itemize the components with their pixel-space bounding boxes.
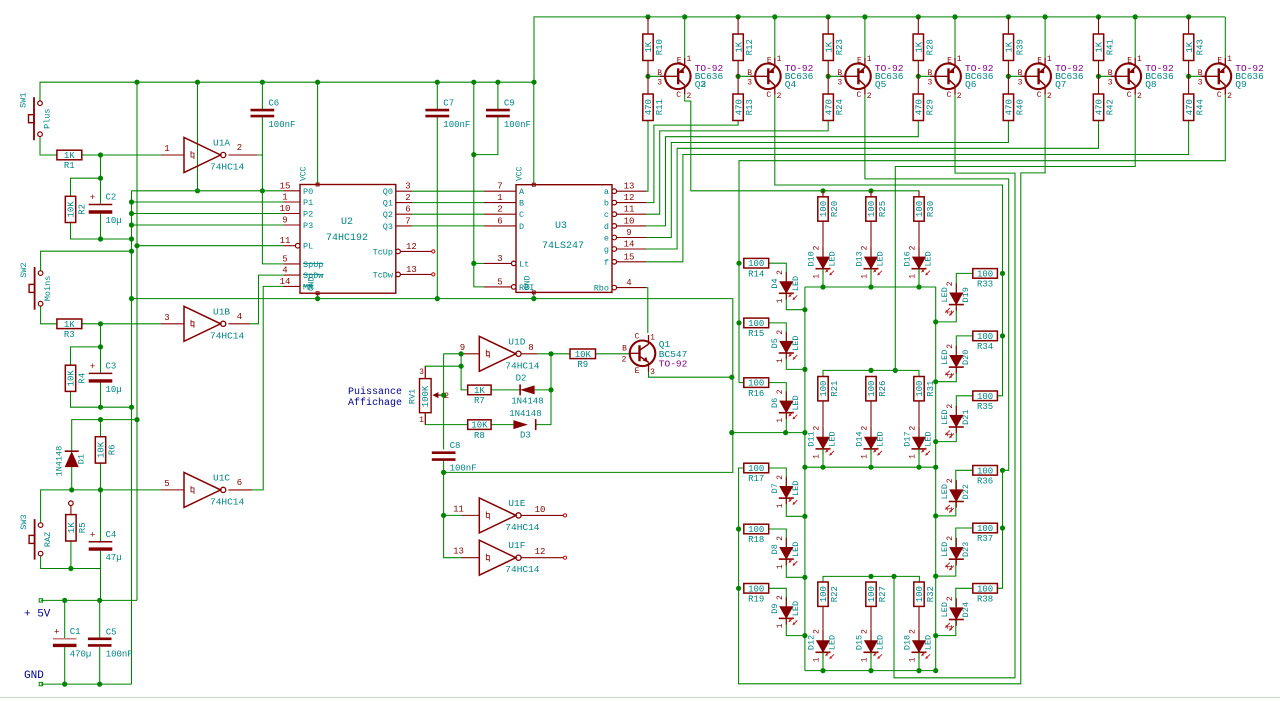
LED D15	[855, 629, 886, 662]
wire segment c rail	[997, 470, 1002, 588]
svg-text:U1F: U1F	[508, 540, 525, 551]
svg-text:2: 2	[861, 426, 870, 431]
svg-text:U1A: U1A	[213, 138, 230, 149]
svg-text:2: 2	[237, 143, 242, 153]
wire R2 C2 top rail	[71, 178, 101, 196]
svg-text:R8: R8	[474, 431, 485, 441]
svg-text:LED: LED	[940, 350, 950, 365]
svg-text:Q7: Q7	[1055, 79, 1066, 90]
svg-text:1: 1	[776, 503, 785, 508]
U1E output stub	[522, 514, 564, 516]
wire base Q5	[828, 75, 845, 77]
wire net a	[646, 121, 648, 192]
svg-text:100nF: 100nF	[443, 120, 470, 130]
wire net g	[646, 121, 1099, 250]
svg-text:100: 100	[819, 201, 829, 217]
wire C4 top lead	[100, 490, 102, 541]
svg-text:D17: D17	[903, 431, 913, 446]
svg-text:2: 2	[622, 355, 627, 364]
wire GND vertical A	[131, 191, 133, 684]
svg-text:100: 100	[915, 201, 925, 217]
svg-text:100: 100	[819, 586, 829, 602]
inverter U1E	[479, 498, 540, 533]
wire D13 anode	[870, 245, 872, 257]
svg-text:2: 2	[497, 205, 502, 215]
svg-text:74HC192: 74HC192	[326, 233, 368, 244]
LED D7	[770, 475, 801, 508]
wire base Q6	[918, 75, 935, 77]
wire VCC vertical B	[136, 82, 138, 600]
svg-text:74HC14: 74HC14	[505, 564, 540, 575]
capacitor C4	[89, 530, 122, 563]
svg-text:B: B	[1198, 69, 1203, 78]
wire cathode gnd link	[732, 432, 805, 434]
wire C1 C5 bottoms	[64, 647, 66, 684]
wire C9 top	[497, 82, 499, 110]
svg-text:11: 11	[624, 205, 635, 215]
wire stub	[918, 191, 920, 197]
svg-text:D7: D7	[770, 483, 780, 493]
svg-text:D11: D11	[807, 431, 817, 446]
svg-text:10: 10	[280, 204, 291, 214]
svg-text:9: 9	[626, 228, 631, 238]
capacitor C5	[88, 627, 133, 659]
svg-text:2: 2	[867, 92, 872, 101]
wire D12 to rail	[822, 652, 824, 670]
svg-text:Q5: Q5	[875, 79, 887, 90]
svg-text:1K: 1K	[64, 320, 75, 330]
wire C3 leads	[100, 347, 102, 373]
svg-text:1: 1	[776, 358, 785, 363]
wire emitter riser Q6	[954, 17, 956, 58]
svg-text:LED: LED	[940, 542, 950, 557]
resistor R6	[95, 437, 117, 463]
svg-text:1K: 1K	[824, 41, 834, 52]
svg-text:LED: LED	[828, 431, 838, 446]
LED D9	[770, 595, 801, 628]
svg-text:E: E	[947, 57, 952, 66]
svg-text:1: 1	[1047, 55, 1052, 64]
svg-text:2: 2	[946, 281, 955, 286]
wire Q7 collector to segment e feed	[739, 95, 1046, 684]
wire C6 top	[261, 82, 263, 110]
capacitor C6	[251, 99, 296, 131]
svg-text:3: 3	[837, 78, 842, 87]
svg-text:74LS247: 74LS247	[542, 241, 584, 252]
capacitor C9	[486, 99, 531, 131]
svg-text:R32: R32	[926, 586, 936, 602]
svg-text:Q0: Q0	[383, 187, 393, 197]
resistor R26	[866, 377, 888, 426]
svg-text:13: 13	[406, 265, 417, 275]
wire mid rail	[805, 466, 936, 468]
resistor R7	[468, 385, 491, 406]
svg-text:3: 3	[419, 368, 424, 377]
svg-text:R39: R39	[1015, 39, 1025, 55]
wire R6 bottom	[100, 463, 102, 490]
wire U3 VCC riser	[533, 82, 535, 185]
svg-text:R20: R20	[830, 201, 840, 217]
svg-text:74HC14: 74HC14	[505, 360, 540, 371]
svg-text:100: 100	[977, 269, 993, 279]
svg-text:1: 1	[1137, 55, 1142, 64]
svg-text:C4: C4	[106, 530, 117, 540]
svg-text:LED: LED	[828, 635, 838, 650]
wire D17 anode	[918, 425, 920, 437]
wire P1	[132, 201, 284, 203]
svg-text:3: 3	[164, 313, 169, 323]
svg-text:1: 1	[909, 454, 918, 459]
svg-text:470: 470	[1095, 99, 1105, 115]
svg-text:D23: D23	[961, 542, 971, 557]
svg-text:E: E	[767, 57, 772, 66]
svg-text:10: 10	[535, 505, 546, 515]
svg-text:2: 2	[776, 595, 785, 600]
wire U1F input stub	[462, 557, 479, 559]
svg-text:RBI: RBI	[519, 283, 534, 293]
wire C2 leads	[100, 178, 102, 204]
svg-text:D21: D21	[961, 410, 971, 425]
svg-text:74HC14: 74HC14	[505, 522, 540, 533]
svg-text:4: 4	[237, 312, 242, 322]
svg-text:D24: D24	[961, 602, 971, 617]
wire U1E input	[444, 514, 462, 516]
wire stub	[870, 191, 872, 197]
transistor Q5	[837, 55, 903, 101]
svg-text:R11: R11	[655, 99, 665, 115]
svg-text:U3: U3	[555, 221, 567, 232]
svg-text:LED: LED	[940, 287, 950, 302]
wire U1D input	[444, 353, 462, 355]
svg-text:2: 2	[813, 629, 822, 634]
svg-text:+ 5V: + 5V	[24, 609, 51, 621]
wire R15 to D5	[769, 323, 787, 342]
wire emitter riser Q5	[864, 17, 866, 58]
svg-text:2: 2	[1227, 92, 1232, 101]
svg-text:3: 3	[747, 78, 752, 87]
svg-text:C: C	[519, 210, 524, 220]
svg-text:100: 100	[867, 201, 877, 217]
svg-text:E: E	[1037, 57, 1042, 66]
wire R5 top stub	[70, 505, 72, 514]
resistor R12	[733, 17, 755, 76]
resistor R34	[973, 331, 998, 352]
svg-text:12: 12	[406, 242, 417, 252]
wire SW2 bottom to R3	[41, 306, 57, 324]
svg-text:E: E	[1217, 57, 1222, 66]
svg-text:10µ: 10µ	[106, 385, 122, 395]
svg-text:100: 100	[748, 379, 764, 389]
svg-text:R30: R30	[926, 201, 936, 217]
wire U1C out riser to MR	[228, 489, 252, 491]
svg-text:R25: R25	[878, 201, 888, 217]
svg-text:1: 1	[776, 298, 785, 303]
svg-text:+: +	[90, 362, 95, 372]
svg-text:13: 13	[453, 547, 464, 557]
wire net c	[646, 121, 828, 215]
wire VCC rail2 D1 R6	[72, 420, 137, 452]
svg-text:74HC14: 74HC14	[210, 496, 245, 507]
svg-text:100: 100	[977, 584, 993, 594]
svg-text:2: 2	[946, 596, 955, 601]
LED D16	[903, 245, 934, 278]
svg-text:6: 6	[405, 205, 410, 215]
svg-text:U1E: U1E	[508, 498, 525, 509]
svg-text:3: 3	[927, 78, 932, 87]
resistor R42	[1093, 76, 1115, 120]
diode D2	[511, 373, 543, 406]
svg-text:C: C	[635, 333, 640, 342]
svg-text:100: 100	[748, 464, 764, 474]
svg-text:2: 2	[686, 92, 691, 101]
svg-text:D16: D16	[903, 251, 913, 266]
svg-text:470: 470	[824, 99, 834, 115]
svg-text:1N4148: 1N4148	[509, 409, 541, 419]
wire cathode right frame lower	[805, 467, 936, 670]
LED D23	[940, 536, 971, 570]
svg-text:LED: LED	[940, 602, 950, 617]
svg-text:7: 7	[497, 182, 502, 192]
svg-text:R37: R37	[977, 534, 993, 544]
resistor R32	[914, 582, 936, 629]
wire R18 to D8	[769, 529, 787, 548]
power pin +5V	[39, 599, 42, 602]
wire D17 to rail	[918, 449, 920, 467]
wire R7 to D2	[491, 389, 520, 391]
wire D14 anode	[870, 425, 872, 437]
wire Lt tap	[474, 262, 484, 264]
svg-text:2: 2	[909, 245, 918, 250]
svg-text:E: E	[677, 57, 682, 66]
wire D16 to rail	[918, 269, 920, 287]
svg-text:C8: C8	[450, 441, 461, 451]
svg-text:TcDw: TcDw	[373, 270, 394, 280]
wire R16 to D6	[769, 383, 787, 402]
svg-text:47µ: 47µ	[106, 553, 122, 563]
svg-text:P2: P2	[303, 210, 313, 220]
svg-text:C2: C2	[106, 193, 117, 203]
svg-text:1: 1	[861, 274, 870, 279]
wire D1 bottom	[71, 467, 73, 490]
svg-text:c: c	[604, 210, 609, 220]
transistor Q7	[1018, 55, 1084, 101]
wire R5 bottom	[70, 541, 72, 569]
svg-text:1: 1	[946, 310, 955, 315]
wire C1 C5 tops	[64, 600, 66, 638]
wire emitter riser Q3	[684, 17, 686, 58]
svg-text:LED: LED	[791, 601, 801, 616]
svg-text:100: 100	[748, 259, 764, 269]
svg-text:B: B	[747, 69, 752, 78]
svg-text:R4: R4	[78, 373, 88, 384]
svg-text:D14: D14	[855, 431, 865, 446]
svg-text:1K: 1K	[644, 41, 654, 52]
svg-text:470: 470	[915, 99, 925, 115]
svg-text:1: 1	[282, 193, 287, 203]
svg-text:1N4148: 1N4148	[511, 396, 543, 406]
svg-text:LED: LED	[876, 635, 886, 650]
svg-text:R22: R22	[830, 586, 840, 602]
svg-text:R27: R27	[878, 586, 888, 602]
svg-text:2: 2	[701, 79, 707, 90]
svg-text:VCC: VCC	[300, 166, 309, 181]
resistor R8	[468, 420, 491, 441]
transistor Q4	[747, 55, 813, 101]
svg-text:R5: R5	[78, 522, 88, 533]
wire g rail	[823, 370, 919, 376]
svg-text:3: 3	[405, 182, 410, 192]
svg-text:1: 1	[419, 416, 424, 425]
wire C9 bottom link	[474, 117, 498, 155]
svg-text:SW2: SW2	[19, 262, 29, 277]
LED D18	[903, 629, 934, 662]
svg-text:D15: D15	[855, 635, 865, 650]
wire base Q4	[738, 75, 755, 77]
svg-text:6: 6	[497, 216, 502, 226]
svg-text:2: 2	[946, 344, 955, 349]
transistor Q8	[1108, 55, 1174, 101]
svg-text:8: 8	[528, 343, 533, 353]
svg-text:B: B	[622, 344, 627, 353]
wire R14 to D4	[769, 263, 787, 281]
wire net f	[646, 121, 1189, 262]
svg-text:D9: D9	[770, 603, 780, 613]
svg-text:2: 2	[444, 391, 449, 401]
inverter U1F	[479, 540, 540, 575]
wire D5 cathode	[786, 353, 805, 369]
wire RV1 bottom to R8	[425, 413, 467, 425]
svg-text:g: g	[604, 245, 609, 255]
svg-text:9: 9	[460, 343, 465, 353]
svg-text:2: 2	[957, 92, 962, 101]
wire out node vertical	[536, 354, 551, 425]
svg-text:100: 100	[915, 381, 925, 397]
resistor R22	[818, 582, 840, 629]
svg-text:C3: C3	[106, 361, 117, 371]
resistor R3	[57, 319, 82, 340]
svg-text:100nF: 100nF	[450, 464, 477, 474]
svg-text:R35: R35	[977, 402, 993, 412]
wire R35 to D21	[956, 396, 973, 415]
svg-text:LED: LED	[876, 251, 886, 266]
svg-text:LED: LED	[791, 336, 801, 351]
svg-text:9: 9	[282, 216, 287, 226]
svg-text:470: 470	[644, 99, 654, 115]
svg-text:SW3: SW3	[19, 514, 29, 529]
svg-text:14: 14	[624, 240, 635, 250]
svg-text:100: 100	[977, 466, 993, 476]
svg-text:TcUp: TcUp	[373, 247, 393, 257]
svg-text:P3: P3	[303, 221, 313, 231]
svg-text:D4: D4	[770, 278, 780, 288]
resistor R5	[66, 515, 88, 541]
svg-text:3: 3	[1198, 78, 1203, 87]
wire D13 to rail	[870, 269, 872, 287]
svg-text:f: f	[604, 258, 609, 268]
svg-text:1K: 1K	[915, 41, 925, 52]
LED D11	[807, 426, 838, 459]
svg-text:R19: R19	[748, 595, 764, 605]
svg-text:LED: LED	[924, 431, 934, 446]
svg-text:3: 3	[650, 368, 655, 377]
svg-text:B: B	[1108, 69, 1113, 78]
svg-text:RV1: RV1	[408, 389, 418, 404]
wire D6 cathode	[785, 413, 787, 433]
wire Q3-D	[412, 225, 484, 227]
svg-text:C6: C6	[268, 99, 279, 109]
svg-text:VCC: VCC	[516, 166, 525, 181]
svg-text:1K: 1K	[1095, 41, 1105, 52]
svg-text:U1C: U1C	[213, 472, 230, 483]
svg-text:C1: C1	[70, 627, 81, 637]
svg-text:1: 1	[776, 418, 785, 423]
wire R8 to D3	[491, 424, 513, 426]
svg-text:C: C	[1127, 91, 1132, 100]
svg-text:R15: R15	[748, 329, 764, 339]
svg-text:2: 2	[861, 629, 870, 634]
svg-text:Q6: Q6	[965, 79, 977, 90]
svg-text:2: 2	[777, 92, 782, 101]
capacitor C1	[53, 627, 91, 660]
resistor R37	[973, 523, 998, 544]
resistor R25	[866, 197, 888, 245]
svg-text:5: 5	[497, 277, 502, 287]
wire stub	[822, 191, 824, 197]
resistor R21	[818, 377, 840, 426]
wire VCC drop to SW1 R1	[40, 137, 57, 156]
wire U2 VCC riser	[317, 82, 319, 184]
svg-text:100: 100	[748, 319, 764, 329]
wire Q9 collector to segment f feed	[739, 95, 1225, 383]
wire R6 top lead	[100, 420, 102, 437]
svg-text:LED: LED	[924, 635, 934, 650]
svg-text:Q9: Q9	[1235, 79, 1247, 90]
wire Q0-A	[412, 190, 484, 192]
svg-text:R2: R2	[78, 204, 88, 215]
svg-text:Puissance: Puissance	[348, 386, 402, 398]
svg-text:100: 100	[819, 381, 829, 397]
svg-text:R28: R28	[925, 39, 935, 55]
wire Q4 collector to segment b rail	[775, 95, 1003, 396]
svg-text:1: 1	[813, 454, 822, 459]
svg-text:2: 2	[1137, 92, 1142, 101]
wire +5V line	[41, 599, 137, 601]
wire d rail	[823, 576, 919, 582]
svg-text:E: E	[1127, 57, 1132, 66]
svg-text:1: 1	[867, 55, 872, 64]
svg-text:7: 7	[405, 216, 410, 226]
wire Lt RBI riser	[474, 82, 484, 287]
svg-text:+: +	[90, 530, 95, 540]
wire base Q8	[1099, 75, 1116, 77]
svg-text:2: 2	[946, 478, 955, 483]
svg-text:100: 100	[977, 392, 993, 402]
svg-text:B: B	[837, 69, 842, 78]
wire emitter riser Q4	[774, 17, 776, 58]
wire D15 anode	[870, 629, 872, 641]
svg-text:R9: R9	[577, 360, 588, 370]
svg-text:1: 1	[861, 657, 870, 662]
wire R34 to D20	[956, 336, 973, 355]
resistor R33	[973, 269, 998, 290]
wire Q2-C	[412, 213, 484, 215]
resistor R36	[973, 466, 998, 487]
svg-text:LED: LED	[828, 251, 838, 266]
wire R37 to D23	[956, 528, 974, 547]
svg-text:15: 15	[280, 181, 291, 191]
svg-text:2: 2	[946, 404, 955, 409]
svg-text:100: 100	[915, 586, 925, 602]
